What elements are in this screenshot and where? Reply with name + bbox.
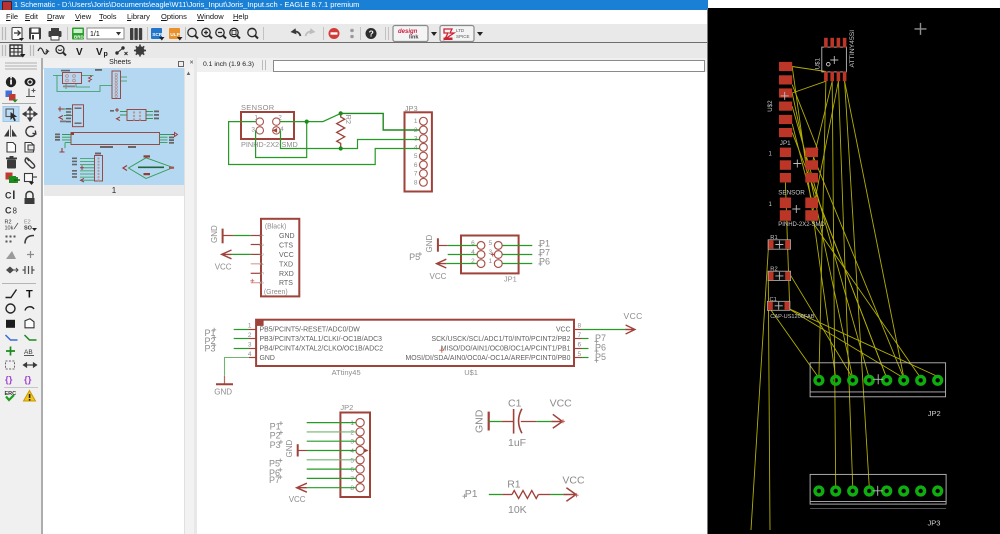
airwire JP1 to JP2	[812, 183, 887, 378]
svg-text:VCC: VCC	[430, 272, 447, 281]
footprint U$2	[767, 62, 792, 137]
svg-text:{}: {}	[24, 375, 32, 386]
wire GND to FTDI pin1	[233, 235, 250, 237]
svg-text:5: 5	[258, 272, 264, 275]
svg-text:U$2: U$2	[767, 100, 774, 112]
SCR icon	[151, 28, 165, 41]
r0 info / eye	[6, 77, 16, 87]
footprint JP1	[769, 140, 819, 183]
svg-text:(Green): (Green)	[264, 289, 288, 296]
svg-text:8: 8	[13, 207, 18, 216]
zoom icons	[188, 28, 258, 38]
wire sensor1 to JP3 pin4	[229, 122, 420, 165]
wire P1 to JP2 pin1	[307, 422, 356, 424]
svg-text:JP1: JP1	[780, 140, 791, 147]
zoom Q	[56, 46, 64, 54]
wire VCC to JP1 pin2	[446, 263, 477, 265]
r16 net / bus	[6, 335, 18, 340]
svg-text:6: 6	[258, 281, 264, 284]
svg-text:8: 8	[350, 485, 354, 492]
svg-text:5: 5	[414, 153, 418, 160]
r15 rect / polygon	[6, 320, 15, 328]
svg-text:PINHD-2X2-SMD: PINHD-2X2-SMD	[778, 222, 825, 228]
svg-text:1: 1	[258, 234, 264, 237]
svg-text:C: C	[5, 206, 12, 216]
mid-right JP1	[120, 112, 153, 119]
undo / redo	[293, 31, 301, 36]
open icon	[12, 28, 24, 42]
SCHEMATIC CANVAS	[197, 72, 708, 534]
svg-text:LTD: LTD	[456, 28, 465, 33]
footprint C1	[767, 297, 814, 320]
supply VCC at JP2 pin8	[289, 483, 307, 504]
svg-text:4: 4	[258, 262, 264, 265]
library icon	[130, 28, 142, 40]
design link button	[393, 26, 437, 42]
r17 junction / label	[6, 347, 15, 356]
IC ATtiny45 U$1	[248, 320, 582, 377]
wire R2 top to JP3 pin2	[341, 113, 420, 130]
capacitor C1	[502, 397, 537, 449]
airwire R1 to bottom left	[751, 249, 768, 530]
svg-text:T: T	[26, 289, 33, 301]
svg-text:U$1: U$1	[464, 368, 478, 377]
wire C1 to VCC	[537, 421, 551, 423]
svg-text:JP1: JP1	[504, 274, 517, 283]
r4 copy / paste	[7, 143, 34, 153]
svg-text:8: 8	[578, 323, 582, 330]
svg-text:JP2: JP2	[340, 403, 353, 412]
svg-text:3: 3	[488, 249, 492, 256]
r10 dots / miter	[6, 236, 16, 243]
svg-text:4: 4	[350, 448, 354, 455]
ground GND at JP2 pin4	[285, 440, 307, 458]
svg-text:1: 1	[350, 420, 354, 427]
wire P5 to JP2 pin5	[307, 459, 356, 461]
sch/brd icon	[72, 28, 84, 40]
svg-text:PB5/PCINT5/-RESET/ADC0/DW: PB5/PCINT5/-RESET/ADC0/DW	[260, 327, 361, 334]
net label P6	[538, 257, 550, 267]
svg-text:3: 3	[248, 342, 252, 349]
svg-text:GND: GND	[285, 440, 294, 458]
supply VCC at R1	[562, 474, 585, 501]
svg-text:SENSOR: SENSOR	[778, 189, 805, 196]
svg-text:5: 5	[488, 240, 492, 247]
net label P1 at R1	[462, 488, 477, 500]
svg-text:PB4/PCINT4/XTAL2/CLKO/OC1B/ADC: PB4/PCINT4/XTAL2/CLKO/OC1B/ADC2	[260, 346, 384, 353]
svg-text:CAP-US1206FAB: CAP-US1206FAB	[770, 314, 814, 320]
svg-text:PINHD-2X2-SMD: PINHD-2X2-SMD	[241, 140, 298, 149]
svg-text:TXD: TXD	[279, 261, 293, 268]
svg-text:2: 2	[278, 115, 282, 122]
svg-text:7: 7	[414, 171, 418, 178]
CANVAS TOP BAR	[197, 58, 708, 73]
svg-text:P1: P1	[465, 488, 478, 500]
svg-text:2: 2	[471, 258, 475, 265]
wire P7 to JP2 pin7	[307, 477, 356, 479]
svg-text:1: 1	[254, 115, 258, 122]
r6 replace / group	[6, 173, 13, 180]
stop icon	[329, 28, 340, 39]
wire R1 to VCC	[550, 494, 563, 496]
svg-text:10K: 10K	[508, 504, 527, 516]
wire U$1 pin5 stub	[582, 357, 589, 359]
wire VCC to JP2 pin8	[307, 487, 356, 489]
svg-text:5: 5	[578, 351, 582, 358]
svg-text:6: 6	[350, 467, 354, 474]
airwire U$1 to JP2/JP3 fan	[819, 81, 826, 378]
grid icon	[10, 45, 22, 56]
print icon	[49, 28, 62, 40]
wire U$1 pin7 stub	[582, 338, 589, 340]
wire U$1 pin4 to ground	[225, 358, 250, 376]
r11 miter2 / plus	[6, 251, 16, 259]
svg-text:3: 3	[251, 127, 255, 134]
supply VCC at JP1 pin2	[430, 259, 447, 281]
net label P7 at JP2	[269, 475, 282, 485]
svg-text:2: 2	[258, 243, 264, 246]
supply VCC at U$1 pin8	[624, 311, 643, 334]
supply VCC at FTDI pin3	[215, 250, 232, 272]
net label P5	[409, 252, 422, 262]
connector SENSOR	[241, 103, 298, 149]
svg-text:JP2: JP2	[928, 409, 941, 418]
net label P2 at JP2	[270, 431, 283, 441]
footprint R2	[768, 267, 791, 281]
MENU BAR	[0, 10, 708, 24]
wire JP1 pin3 to P7	[502, 254, 532, 256]
svg-text:5: 5	[350, 457, 354, 464]
save icon	[29, 28, 41, 40]
svg-text:MOSI/DI/SDA/AIN0/OC0A/-OC1A/AR: MOSI/DI/SDA/AIN0/OC0A/-OC1A/AREF/PCINT0/…	[405, 355, 570, 362]
footprint R1	[768, 235, 791, 249]
svg-text:ATTINY45SI: ATTINY45SI	[849, 30, 856, 68]
TOOLBAR ROW 2	[0, 43, 708, 59]
svg-text:R1: R1	[507, 479, 521, 491]
r18 dim / stretch	[6, 361, 15, 369]
sheet combo	[87, 28, 124, 39]
wire GND to JP1 pin6	[448, 245, 477, 247]
ground GND at FTDI pin1	[210, 225, 234, 243]
wire P2 to JP2 pin2	[307, 431, 356, 433]
svg-text:10k: 10k	[5, 226, 14, 232]
wire P1 to U$1 pin1	[234, 329, 249, 331]
wire sensor2 to R2 top	[280, 113, 341, 121]
r12 split / gateswap	[6, 267, 14, 274]
svg-text:V: V	[96, 47, 103, 58]
bottom-right diamond	[129, 158, 174, 179]
svg-text:VCC: VCC	[215, 263, 232, 272]
net label P6 at U$1 pin6	[595, 343, 607, 353]
net label P2 at U$1 pin2	[205, 336, 217, 346]
svg-text:U$1: U$1	[815, 57, 822, 69]
connector JP1	[461, 236, 519, 284]
resistor R2	[337, 113, 353, 148]
sheet number strip	[44, 185, 184, 196]
svg-text:V: V	[76, 47, 83, 58]
sheets scrollbar	[184, 68, 194, 534]
svg-text:GND: GND	[214, 388, 232, 397]
supply VCC at C1	[550, 397, 573, 428]
svg-text:SO: SO	[24, 226, 33, 232]
r3 mirror / rotate	[10, 126, 12, 138]
net label P1	[538, 238, 550, 248]
svg-text:RXD: RXD	[279, 271, 294, 278]
svg-text:6: 6	[578, 342, 582, 349]
net label P1 at JP2	[270, 421, 283, 431]
svg-text:6: 6	[414, 162, 418, 169]
r5 trash / wrench	[6, 156, 17, 169]
net label P3 at U$1 pin3	[205, 343, 217, 353]
ground GND below U$1	[214, 376, 233, 397]
svg-text:{}: {}	[5, 375, 13, 386]
LTspice button	[440, 26, 483, 42]
gear	[134, 45, 146, 57]
junction at R2 top	[339, 111, 343, 115]
svg-text:AB: AB	[24, 349, 33, 356]
wire P3 to JP2 pin3	[307, 440, 356, 442]
connector FTDI header	[250, 219, 299, 297]
help icon	[366, 28, 377, 39]
ground GND at C1	[474, 409, 489, 433]
gray dots	[350, 29, 354, 33]
svg-text:VCC: VCC	[550, 397, 573, 409]
net label P5 at JP2	[269, 459, 282, 469]
r14 circle / arc	[6, 304, 15, 313]
bottom-left JP2	[95, 156, 103, 182]
TITLE BAR	[0, 0, 708, 10]
wire junction to sensor3	[256, 122, 307, 158]
svg-text:SPICE: SPICE	[456, 34, 470, 39]
wire JP1 pin1 to P6	[502, 263, 532, 265]
r13 wire / text	[6, 290, 17, 298]
svg-text:BRD: BRD	[74, 35, 84, 40]
mouse crosshair cursor	[915, 23, 927, 35]
svg-text:SCK/USCK/SCL/ADC1/T0/INT0/PCIN: SCK/USCK/SCL/ADC1/T0/INT0/PCINT2/PB2	[431, 336, 570, 343]
net label P1 at U$1 pin1	[205, 328, 217, 338]
r2 select cursor (active) / move	[3, 107, 19, 122]
svg-text:4: 4	[414, 144, 418, 151]
wire U$1 pin6 stub	[582, 348, 589, 350]
svg-text:GND: GND	[260, 355, 275, 362]
ground GND at JP1 pin6	[425, 235, 448, 253]
svg-text:(Black): (Black)	[265, 223, 286, 230]
svg-text:VCC: VCC	[556, 327, 571, 334]
svg-text:1/1: 1/1	[90, 31, 100, 38]
svg-text:7: 7	[578, 332, 582, 339]
svg-text:GND: GND	[279, 233, 295, 240]
svg-text:VCC: VCC	[279, 252, 294, 259]
svg-text:3: 3	[258, 253, 264, 256]
net label P7 at U$1 pin7	[595, 333, 607, 343]
connector JP2 board	[810, 363, 946, 418]
svg-text:C1: C1	[508, 397, 522, 409]
svg-text:3: 3	[350, 439, 354, 446]
airwire SENSOR to JP2	[812, 221, 921, 378]
wire VCC to FTDI pin3	[232, 253, 251, 255]
wire P2 to U$1 pin2	[234, 338, 249, 340]
svg-text:1uF: 1uF	[508, 437, 526, 449]
resistor R1	[502, 479, 550, 517]
TOOLBAR ROW 1	[0, 24, 708, 43]
LEFT TOOL PALETTE	[0, 58, 41, 534]
net label P6 at JP2	[269, 468, 282, 478]
svg-text:p: p	[104, 51, 108, 58]
wire GND to JP2 pin4	[307, 450, 357, 452]
SHEETS PANEL	[43, 58, 197, 69]
wire U$1 pin8 to VCC	[582, 329, 626, 331]
wire JP1 pin5 to P1	[502, 245, 532, 247]
mid-left ftdi	[64, 109, 72, 116]
r1 layers / mark	[6, 91, 13, 98]
svg-text:VCC: VCC	[562, 474, 585, 486]
airwire U$2 to JP2	[792, 93, 853, 378]
junction at R2 bottom	[339, 146, 343, 150]
svg-text:MISO/DO/AIN1/OC0B/OC1A/PCINT1/: MISO/DO/AIN1/OC0B/OC1A/PCINT1/PB1	[441, 346, 571, 353]
svg-text:link: link	[409, 35, 419, 41]
net label P5 at U$1 pin5	[595, 352, 607, 362]
connector JP2	[340, 403, 370, 497]
svg-text:GND: GND	[474, 409, 486, 433]
svg-text:1: 1	[248, 323, 252, 330]
airwire U$2 to U$1	[751, 67, 938, 531]
svg-text:RTS: RTS	[279, 280, 293, 287]
ULP icon	[169, 28, 183, 41]
connector JP3	[405, 104, 432, 192]
BOARD WINDOW	[707, 8, 708, 534]
wire sensor4 to R2 bottom to JP3 pin3	[281, 130, 420, 148]
wire P5 to JP1 pin4 and pin3	[448, 254, 477, 256]
svg-text:VCC: VCC	[624, 311, 643, 321]
svg-text:1: 1	[414, 118, 418, 125]
svg-text:PB3/PCINT3/XTAL1/CLKI/-OC1B/AD: PB3/PCINT3/XTAL1/CLKI/-OC1B/ADC3	[260, 336, 383, 343]
connector JP3 board	[810, 474, 946, 527]
svg-text:C: C	[5, 191, 12, 201]
wire P6 to JP2 pin6	[307, 468, 356, 470]
svg-text:8: 8	[414, 179, 418, 186]
net label P7	[538, 247, 550, 257]
svg-text:GND: GND	[425, 235, 434, 253]
svg-text:JP3: JP3	[928, 519, 941, 528]
svg-text:?: ?	[369, 29, 374, 39]
center IC	[71, 133, 160, 145]
svg-text:CTS: CTS	[279, 242, 293, 249]
airwire R2 C1 to JP2	[791, 276, 853, 378]
svg-text:GND: GND	[210, 225, 219, 243]
svg-text:7: 7	[350, 476, 354, 483]
sine	[38, 48, 48, 54]
svg-text:R2: R2	[344, 115, 353, 125]
wire GND to C1	[489, 421, 502, 423]
wire P3 to U$1 pin3	[234, 348, 249, 350]
probe	[115, 46, 127, 55]
junction at sensor2 net	[305, 120, 309, 124]
footprint SENSOR	[769, 189, 826, 228]
net label P3 at JP2	[270, 440, 283, 450]
svg-text:SENSOR: SENSOR	[241, 103, 275, 112]
svg-text:VCC: VCC	[289, 495, 306, 504]
wire P1 to R1	[489, 494, 503, 496]
svg-text:1: 1	[488, 258, 492, 265]
footprint U$1 ATTINY45SI	[815, 30, 856, 81]
svg-text:ATtiny45: ATtiny45	[332, 368, 361, 377]
svg-text:2: 2	[350, 429, 354, 436]
